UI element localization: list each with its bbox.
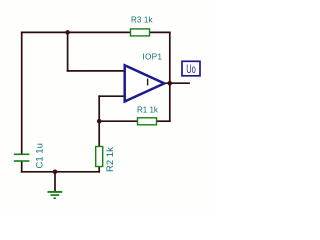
wire output stub xyxy=(164,82,189,84)
resistor R2 xyxy=(96,147,103,167)
wire R2 bottom stub xyxy=(98,167,100,172)
resistor R1 xyxy=(138,118,157,125)
svg-text:R1 1k: R1 1k xyxy=(137,106,159,115)
wire R1 left xyxy=(99,120,137,122)
svg-text:R2 1k: R2 1k xyxy=(105,147,116,172)
wire left vertical xyxy=(21,32,23,153)
wire capacitor bottom xyxy=(21,162,23,172)
node A junction dot xyxy=(65,30,70,35)
wire bottom horizontal xyxy=(22,171,100,173)
capacitor C1 xyxy=(14,154,30,161)
svg-text:Uo: Uo xyxy=(186,63,196,76)
wire from node A down xyxy=(67,32,69,71)
svg-text:R3 1k: R3 1k xyxy=(131,15,153,24)
op-amp U1 triangle xyxy=(125,65,165,101)
wire ground stub xyxy=(54,172,56,192)
op-amp internal bar xyxy=(147,79,149,86)
wire to op-amp bottom input xyxy=(99,95,124,97)
node ground junction dot xyxy=(53,170,58,175)
node Uo output label box xyxy=(182,61,200,76)
wire to op-amp top input xyxy=(68,70,125,72)
resistor R3 xyxy=(131,29,150,36)
svg-text:IOP1: IOP1 xyxy=(142,52,162,62)
svg-text:C1 1u: C1 1u xyxy=(34,143,45,168)
node output junction dot xyxy=(168,81,173,86)
wire right vertical feedback xyxy=(169,32,171,121)
ground xyxy=(48,192,63,198)
wire top-left horizontal xyxy=(22,31,131,33)
node R1-left junction dot xyxy=(97,119,102,124)
wire top-right horizontal xyxy=(150,31,170,33)
wire R1 right xyxy=(157,120,170,122)
wire middle vertical xyxy=(98,96,100,146)
